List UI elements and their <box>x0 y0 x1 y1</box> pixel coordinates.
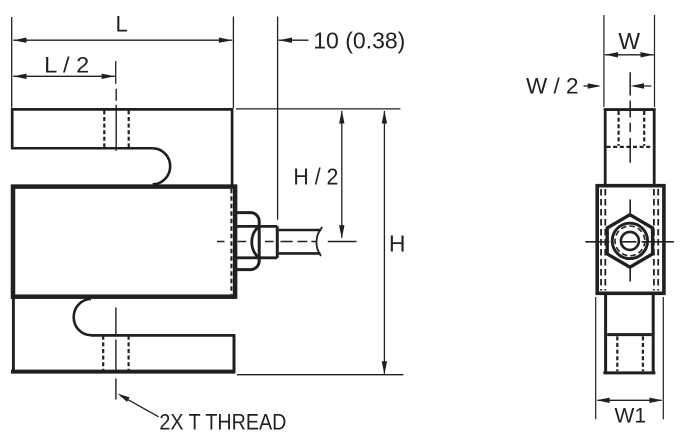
dimension 10 arrow <box>279 39 309 41</box>
upper slot rounded end arc <box>153 148 171 184</box>
dimension L arrowheads <box>13 38 232 43</box>
dimension L/2 line <box>13 75 115 77</box>
upper body outline (top plate + right column) <box>12 109 232 186</box>
top thread centerline <box>115 89 117 152</box>
svg-text:W: W <box>618 28 640 54</box>
hex nut hexagon (face view) <box>607 215 652 268</box>
dimension L line <box>13 39 232 41</box>
cable break arc <box>316 227 322 256</box>
dimension W line <box>605 54 654 56</box>
svg-text:L / 2: L / 2 <box>44 53 89 78</box>
svg-text:H / 2: H / 2 <box>293 164 338 190</box>
bottom thread hole hidden lines <box>103 336 128 372</box>
side middle block hidden lines <box>601 189 658 291</box>
dimension L/2 arrowheads <box>13 74 115 79</box>
nut horizontal centerline <box>585 241 674 243</box>
nut vertical centerline ticks <box>629 200 631 282</box>
side bottom thread depth line <box>607 333 652 336</box>
dimension W1 extension lines <box>596 297 664 419</box>
lower body bottom edge <box>11 370 235 374</box>
dimension L/2 right extension line <box>115 61 117 84</box>
side top column top edge <box>604 108 656 111</box>
bottom thread centerline <box>115 308 117 400</box>
lower body right edge <box>233 335 236 372</box>
side bottom column <box>606 293 654 372</box>
side top thread hidden lines <box>619 111 645 146</box>
side bottom thread hidden lines <box>617 336 643 371</box>
lower body left edge <box>12 296 15 372</box>
connector hidden line in body <box>230 189 232 294</box>
svg-text:L: L <box>115 12 127 37</box>
side top column <box>605 110 654 186</box>
hex nut face arc <box>252 226 259 257</box>
bottom extension line for H <box>237 374 403 376</box>
hex nut flats lines <box>237 226 278 257</box>
lower slot bottom edge <box>91 334 236 337</box>
side middle block <box>597 186 664 294</box>
side vertical centerline (top) <box>629 72 631 163</box>
svg-text:W1: W1 <box>615 405 647 428</box>
nut bore circle <box>621 232 639 250</box>
dimension H/2 line <box>341 111 343 238</box>
svg-text:10 (0.38): 10 (0.38) <box>313 27 405 53</box>
middle block <box>13 187 235 297</box>
dimension W/2 arrows <box>584 85 600 87</box>
hex nut side profile <box>237 213 260 270</box>
dimension L extension lines <box>12 17 234 109</box>
nut thread circle (dashed) <box>615 226 645 256</box>
dimension H line <box>383 111 385 374</box>
nut chamfer circle <box>612 223 647 258</box>
lower slot rounded end arc <box>74 299 91 335</box>
dimension W1 line <box>598 399 662 401</box>
svg-text:2X T THREAD: 2X T THREAD <box>159 409 286 434</box>
top extension line for H <box>236 108 400 110</box>
cable centerline <box>217 241 357 243</box>
svg-text:H: H <box>389 231 406 257</box>
dimension 10 extension line <box>277 17 279 220</box>
dimension W extension lines <box>604 15 655 107</box>
svg-text:W / 2: W / 2 <box>526 74 579 99</box>
top thread hole hidden lines <box>104 110 128 148</box>
side top thread depth hidden line <box>607 146 653 148</box>
upper slot top edge <box>11 147 153 150</box>
cable fitting right edge <box>276 226 279 257</box>
cable top/bottom edges <box>279 230 322 253</box>
side bottom column bottom edge <box>603 371 655 374</box>
leader for 2X T THREAD <box>120 395 158 416</box>
